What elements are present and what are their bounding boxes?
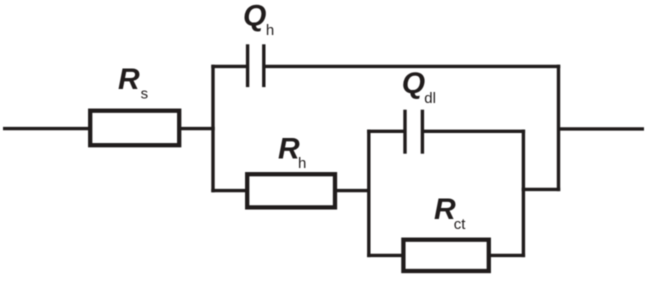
- svg-text:R: R: [118, 63, 140, 96]
- svg-text:s: s: [141, 85, 149, 102]
- svg-text:R: R: [434, 193, 456, 226]
- svg-text:Q: Q: [243, 0, 266, 32]
- svg-text:h: h: [298, 155, 306, 172]
- svg-text:dl: dl: [424, 90, 436, 107]
- svg-text:R: R: [278, 132, 300, 165]
- svg-text:h: h: [266, 22, 274, 39]
- svg-text:ct: ct: [454, 216, 467, 233]
- svg-text:Q: Q: [402, 67, 425, 100]
